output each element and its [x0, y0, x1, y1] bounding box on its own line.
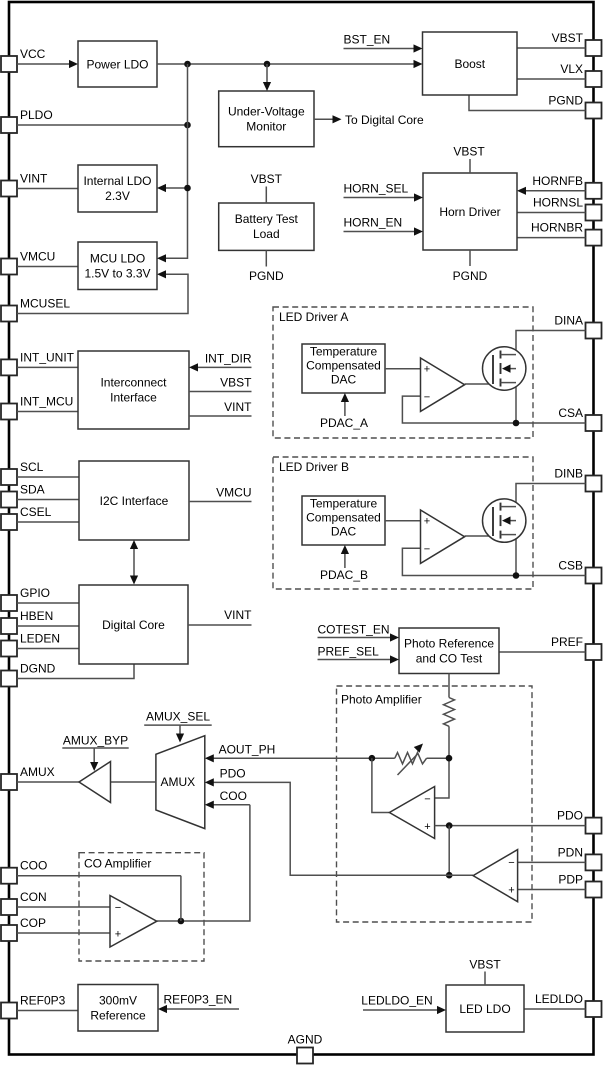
node PLDO wire junction — [184, 122, 191, 129]
wire COO junction up to COO pin run — [180, 876, 182, 921]
pin PDP — [558, 873, 601, 898]
svg-text:REF0P3: REF0P3 — [20, 994, 66, 1008]
wire Horn Driver to HORNSL pin — [517, 212, 586, 214]
svg-text:INT_MCU: INT_MCU — [20, 395, 73, 409]
pin PDN — [558, 845, 602, 870]
svg-text:+: + — [115, 928, 121, 940]
svg-text:+: + — [424, 364, 430, 376]
svg-text:To Digital Core: To Digital Core — [345, 113, 424, 127]
svg-text:AMUX: AMUX — [20, 765, 55, 779]
label AMUX_BYP with arrow into buffer — [62, 733, 128, 771]
pin HORNSL — [533, 196, 602, 221]
wire PLDO pin to rail — [17, 124, 188, 126]
wire resistor to feedback node — [448, 726, 450, 758]
label AOUT_PH and wire to AMUX — [205, 742, 372, 762]
node PLDO junction on VCC rail — [184, 61, 191, 68]
pin VBST — [552, 31, 602, 56]
wire GPIO to Digital Core — [17, 602, 79, 604]
label PDAC_B with arrow into DAC B — [320, 545, 368, 582]
svg-text:HORNFB: HORNFB — [532, 174, 583, 188]
block Interconnect Interface — [78, 351, 189, 429]
svg-text:Boost: Boost — [454, 57, 485, 71]
svg-text:GPIO: GPIO — [20, 586, 50, 600]
svg-text:Compensated: Compensated — [306, 359, 381, 373]
svg-text:Temperature: Temperature — [310, 497, 378, 511]
wire AMUX pin to bypass buffer — [17, 781, 79, 783]
svg-text:Reference: Reference — [90, 1008, 146, 1022]
svg-text:−: − — [115, 902, 121, 914]
wire HBEN to Digital Core — [17, 625, 79, 627]
wire plain segments around variable resistor — [372, 757, 449, 759]
block Photo Reference and CO Test — [399, 628, 499, 674]
svg-text:LEDEN: LEDEN — [20, 632, 60, 646]
svg-text:HORN_SEL: HORN_SEL — [344, 182, 409, 196]
pin DGND — [1, 662, 56, 687]
svg-text:LED LDO: LED LDO — [459, 1002, 510, 1016]
pin DINA — [554, 314, 601, 339]
block Digital Core — [79, 585, 188, 664]
wire MOSFET B drain to DINB pin — [516, 484, 586, 507]
svg-text:COO: COO — [220, 789, 247, 803]
svg-text:COO: COO — [20, 859, 47, 873]
node Internal LDO feed junction — [184, 185, 191, 192]
svg-text:LED Driver B: LED Driver B — [279, 460, 349, 474]
svg-text:AMUX: AMUX — [161, 775, 196, 789]
wire LED LDO to LEDLDO pin — [524, 1008, 586, 1010]
wire HORNFB pin to Horn Driver — [517, 187, 586, 195]
block LED Driver B dashed boundary — [273, 457, 533, 589]
svg-text:MCU LDO: MCU LDO — [90, 251, 145, 265]
svg-text:CON: CON — [20, 890, 47, 904]
svg-text:+: + — [424, 821, 430, 833]
label HORN_EN and wire into Horn Driver — [344, 216, 424, 236]
svg-text:PDP: PDP — [558, 873, 583, 887]
label PREF_SEL and wire into Photo Reference — [318, 645, 400, 664]
svg-text:PGND: PGND — [453, 269, 488, 283]
wire Photo Reference down to resistor — [448, 674, 450, 698]
label VBST on Interconnect Interface — [189, 376, 252, 392]
pin PLDO — [1, 108, 53, 133]
svg-text:HORN_EN: HORN_EN — [344, 216, 403, 230]
svg-text:1.5V to 3.3V: 1.5V to 3.3V — [84, 266, 150, 280]
wire COO pin to CO amplifier output node — [17, 875, 181, 877]
svg-text:VMCU: VMCU — [20, 250, 55, 264]
svg-text:INT_DIR: INT_DIR — [205, 351, 252, 365]
svg-text:HORNSL: HORNSL — [533, 196, 583, 210]
svg-text:PREF_SEL: PREF_SEL — [318, 645, 380, 659]
pin REF0P3 — [1, 994, 66, 1019]
label HORN_SEL and wire into Horn Driver — [344, 182, 424, 202]
mux AMUX trapezoid — [156, 736, 205, 829]
wire UVM output To Digital Core — [314, 113, 424, 127]
svg-text:Interface: Interface — [110, 391, 157, 405]
svg-text:VINT: VINT — [224, 608, 252, 622]
svg-text:Load: Load — [253, 227, 280, 241]
svg-text:VBST: VBST — [220, 376, 252, 390]
svg-text:PDO: PDO — [557, 809, 583, 823]
svg-text:INT_UNIT: INT_UNIT — [20, 350, 75, 364]
wire CON to CO amplifier inverting input — [17, 906, 110, 908]
pin CSA — [558, 406, 601, 431]
pin MCUSEL — [1, 297, 70, 322]
node COO junction — [178, 918, 185, 925]
wire op-amp output up to feedback left node — [372, 758, 390, 812]
wire Boost bottom to PGND pin — [469, 95, 586, 111]
svg-text:Horn Driver: Horn Driver — [439, 205, 500, 219]
pin INT_MCU — [1, 395, 73, 420]
pin HORNFB — [532, 174, 601, 199]
transistor MOSFET B — [483, 499, 526, 542]
svg-text:Photo Reference: Photo Reference — [404, 636, 494, 650]
svg-text:I2C Interface: I2C Interface — [100, 494, 169, 508]
svg-text:Compensated: Compensated — [306, 511, 381, 525]
pin COP — [1, 916, 46, 941]
label VBST above LED LDO — [469, 958, 501, 986]
wire PDO net op-amp to pin — [435, 825, 586, 827]
wire SCL to I2C Interface — [17, 476, 79, 478]
pin PGND boost — [548, 94, 601, 119]
pin HORNBR — [531, 221, 602, 246]
wire PDN pin to photo comparator — [518, 861, 586, 863]
wire AMUX output to bypass buffer — [111, 781, 156, 783]
svg-text:AMUX_SEL: AMUX_SEL — [146, 710, 210, 724]
op-amp photo transimpedance — [389, 787, 434, 839]
wire COP to CO amplifier non-inverting input — [17, 932, 110, 934]
wire CSEL to I2C Interface — [17, 521, 79, 523]
wire VMCU to MCU LDO — [17, 266, 78, 268]
wire DAC B to op-amp B — [385, 520, 421, 522]
label VMCU on I2C Interface — [189, 486, 252, 502]
svg-text:DGND: DGND — [20, 662, 56, 676]
label COO at AMUX input and wire — [205, 789, 250, 809]
wire CSB net — [402, 521, 585, 576]
wire SDA to I2C Interface — [17, 499, 79, 501]
svg-text:SCL: SCL — [20, 460, 44, 474]
svg-text:Power LDO: Power LDO — [86, 57, 148, 71]
node photo feedback left junction — [369, 755, 376, 762]
svg-text:−: − — [424, 391, 430, 403]
svg-text:PREF: PREF — [551, 635, 583, 649]
wire I2C Interface to Digital Core double arrow — [130, 540, 138, 585]
svg-text:CSEL: CSEL — [20, 505, 52, 519]
pin CSEL — [1, 505, 52, 530]
svg-text:and CO Test: and CO Test — [416, 651, 483, 665]
block Under-Voltage Monitor — [219, 91, 314, 147]
wire op-amp A output to MOSFET A gate — [465, 383, 493, 385]
svg-text:AMUX_BYP: AMUX_BYP — [63, 733, 128, 747]
pin PDO — [557, 809, 602, 834]
svg-text:PDN: PDN — [558, 845, 583, 859]
svg-text:Under-Voltage: Under-Voltage — [228, 105, 305, 119]
svg-text:+: + — [424, 516, 430, 528]
svg-text:COTEST_EN: COTEST_EN — [318, 623, 390, 637]
svg-text:Battery Test: Battery Test — [235, 212, 299, 226]
pin VINT — [1, 172, 48, 197]
wire PLDO rail down to Internal LDO and MCU LDO — [157, 64, 188, 262]
svg-text:DINB: DINB — [554, 467, 583, 481]
block MCU LDO — [78, 242, 157, 290]
svg-text:HBEN: HBEN — [20, 609, 53, 623]
block Temperature Compensated DAC A — [302, 344, 385, 393]
label VBST above Horn Driver — [453, 145, 485, 174]
svg-text:PLDO: PLDO — [20, 108, 53, 122]
label BST_EN and wire into Boost — [344, 33, 423, 53]
svg-text:Digital Core: Digital Core — [102, 618, 165, 632]
label VINT on Interconnect Interface — [189, 400, 252, 416]
label VINT on Digital Core — [188, 608, 252, 625]
svg-text:VINT: VINT — [224, 400, 252, 414]
block I2C Interface — [79, 461, 189, 540]
label REF0P3_EN and wire into 300mV Reference — [158, 992, 239, 1013]
op-amp CO amplifier — [110, 896, 157, 948]
wire REF0P3 to 300mV Reference — [17, 1010, 78, 1012]
svg-text:HORNBR: HORNBR — [531, 221, 583, 235]
pin INT_UNIT — [1, 350, 75, 375]
pin LEDLDO — [535, 992, 602, 1017]
node PDO junction upper — [446, 822, 453, 829]
block Power LDO — [78, 41, 157, 87]
op-amp A — [421, 358, 465, 411]
wire INT_UNIT to Interconnect Interface — [17, 366, 78, 368]
wire CSA net — [402, 369, 585, 423]
wire LEDEN to Digital Core — [17, 648, 79, 650]
svg-text:Temperature: Temperature — [310, 345, 378, 359]
wire feedback node down to op-amp inverting input — [435, 758, 449, 798]
pin VLX — [560, 62, 601, 87]
label AMUX_SEL with arrow into AMUX — [144, 710, 212, 743]
wire PDO junction down to comparator output rail — [448, 826, 450, 876]
svg-text:VMCU: VMCU — [216, 486, 251, 500]
wire PDP pin to photo comparator — [518, 889, 586, 891]
wire DGND to Digital Core bottom — [17, 664, 134, 679]
wire MCUSEL to MCU LDO — [17, 270, 188, 313]
pin VMCU — [1, 250, 55, 275]
pin LEDEN — [1, 632, 60, 657]
svg-text:AOUT_PH: AOUT_PH — [219, 742, 276, 756]
wire Photo Reference to PREF pin — [499, 651, 586, 653]
node photo feedback right junction — [446, 755, 453, 762]
buffer AMUX bypass — [79, 762, 111, 803]
svg-text:Interconnect: Interconnect — [100, 376, 167, 390]
node CSB junction — [513, 572, 520, 579]
block Internal LDO 2.3V — [78, 165, 157, 212]
svg-text:Monitor: Monitor — [246, 120, 286, 134]
svg-text:PDAC_A: PDAC_A — [320, 416, 368, 430]
wire VCC to Power LDO — [17, 60, 78, 68]
svg-text:SDA: SDA — [20, 483, 45, 497]
svg-text:LED Driver A: LED Driver A — [279, 310, 348, 324]
label LEDLDO_EN and wire into LED LDO — [361, 993, 446, 1014]
block Photo Amplifier dashed boundary — [337, 686, 533, 922]
wire MOSFET A drain to DINA pin — [516, 331, 586, 355]
svg-text:VBST: VBST — [469, 958, 501, 972]
svg-text:VINT: VINT — [20, 172, 48, 186]
pin SDA — [1, 483, 45, 508]
block CO Amplifier dashed boundary — [79, 853, 204, 961]
wire Horn Driver to HORNBR pin — [517, 237, 586, 239]
svg-text:+: + — [508, 884, 514, 896]
transistor MOSFET A — [483, 347, 526, 390]
svg-text:CSB: CSB — [558, 559, 583, 573]
wire VINT to Internal LDO — [17, 188, 78, 190]
svg-text:2.3V: 2.3V — [105, 189, 130, 203]
wire comparator output rail to AMUX PDO input — [214, 782, 474, 875]
label PDAC_A with arrow into DAC A — [320, 393, 368, 430]
svg-text:−: − — [424, 543, 430, 555]
wire INT_MCU to Interconnect Interface — [17, 411, 78, 413]
svg-text:BST_EN: BST_EN — [344, 33, 391, 47]
pin VCC — [1, 47, 46, 72]
block LED Driver A dashed boundary — [273, 307, 533, 438]
svg-text:300mV: 300mV — [99, 993, 137, 1007]
pin AGND — [288, 1033, 323, 1064]
resistor variable photo feedback — [395, 744, 427, 776]
label VBST above Battery Test Load — [251, 172, 283, 203]
label COTEST_EN and wire into Photo Reference — [318, 623, 400, 642]
block Battery Test Load — [219, 203, 314, 250]
svg-text:DAC: DAC — [331, 525, 357, 539]
node CSA junction — [513, 420, 520, 427]
svg-text:DINA: DINA — [554, 314, 583, 328]
svg-text:COP: COP — [20, 916, 46, 930]
label INT_DIR and wire into Interconnect Interface — [189, 351, 252, 371]
svg-text:Internal LDO: Internal LDO — [83, 174, 151, 188]
svg-text:CO Amplifier: CO Amplifier — [84, 857, 151, 871]
block Horn Driver — [423, 173, 517, 250]
svg-text:PDAC_B: PDAC_B — [320, 568, 368, 582]
svg-text:LEDLDO_EN: LEDLDO_EN — [361, 993, 432, 1007]
pin GPIO — [1, 586, 50, 611]
svg-text:−: − — [508, 857, 514, 869]
svg-text:PDO: PDO — [220, 767, 246, 781]
wire tap down into Under-Voltage Monitor — [263, 64, 271, 91]
wire op-amp B output to MOSFET B gate — [465, 535, 493, 537]
wire Battery Test Load to PGND label — [249, 250, 284, 282]
wire COO net from CO amplifier output — [157, 805, 250, 921]
pin DINB — [554, 467, 601, 492]
op-amp B — [421, 510, 465, 563]
svg-text:VCC: VCC — [20, 47, 46, 61]
svg-text:LEDLDO: LEDLDO — [535, 992, 583, 1006]
wire Boost to VLX pin — [517, 78, 586, 80]
resistor fixed — [444, 698, 455, 727]
svg-text:CSA: CSA — [558, 406, 583, 420]
svg-text:−: − — [424, 793, 430, 805]
pin COO — [1, 859, 47, 884]
svg-text:PGND: PGND — [548, 94, 583, 108]
svg-text:Photo Amplifier: Photo Amplifier — [341, 693, 422, 707]
op-amp photo comparator — [473, 850, 517, 902]
svg-text:REF0P3_EN: REF0P3_EN — [164, 992, 233, 1006]
svg-text:AGND: AGND — [288, 1033, 323, 1047]
pin HBEN — [1, 609, 53, 634]
svg-text:PGND: PGND — [249, 269, 284, 283]
pin AMUX — [1, 765, 55, 790]
svg-text:MCUSEL: MCUSEL — [20, 297, 70, 311]
svg-text:VBST: VBST — [552, 31, 584, 45]
pin PREF — [551, 635, 602, 660]
svg-text:DAC: DAC — [331, 373, 357, 387]
block 300mV Reference — [78, 985, 158, 1032]
wire Boost to VBST pin — [517, 47, 586, 49]
pin SCL — [1, 460, 44, 485]
block LED LDO — [446, 985, 524, 1032]
pin CSB — [558, 559, 601, 584]
node PDO junction lower — [446, 872, 453, 879]
block Boost — [423, 32, 518, 95]
wire Horn Driver to PGND label — [453, 250, 488, 283]
wire DAC A to op-amp A — [385, 368, 421, 370]
svg-text:VBST: VBST — [251, 172, 283, 186]
svg-text:VLX: VLX — [560, 62, 583, 76]
block Temperature Compensated DAC B — [302, 496, 385, 545]
pin CON — [1, 890, 47, 915]
svg-text:VBST: VBST — [453, 145, 485, 159]
label PDO at AMUX input — [205, 767, 246, 787]
wire Power LDO output to Boost — [157, 60, 423, 68]
node UVM tap junction — [264, 61, 271, 68]
